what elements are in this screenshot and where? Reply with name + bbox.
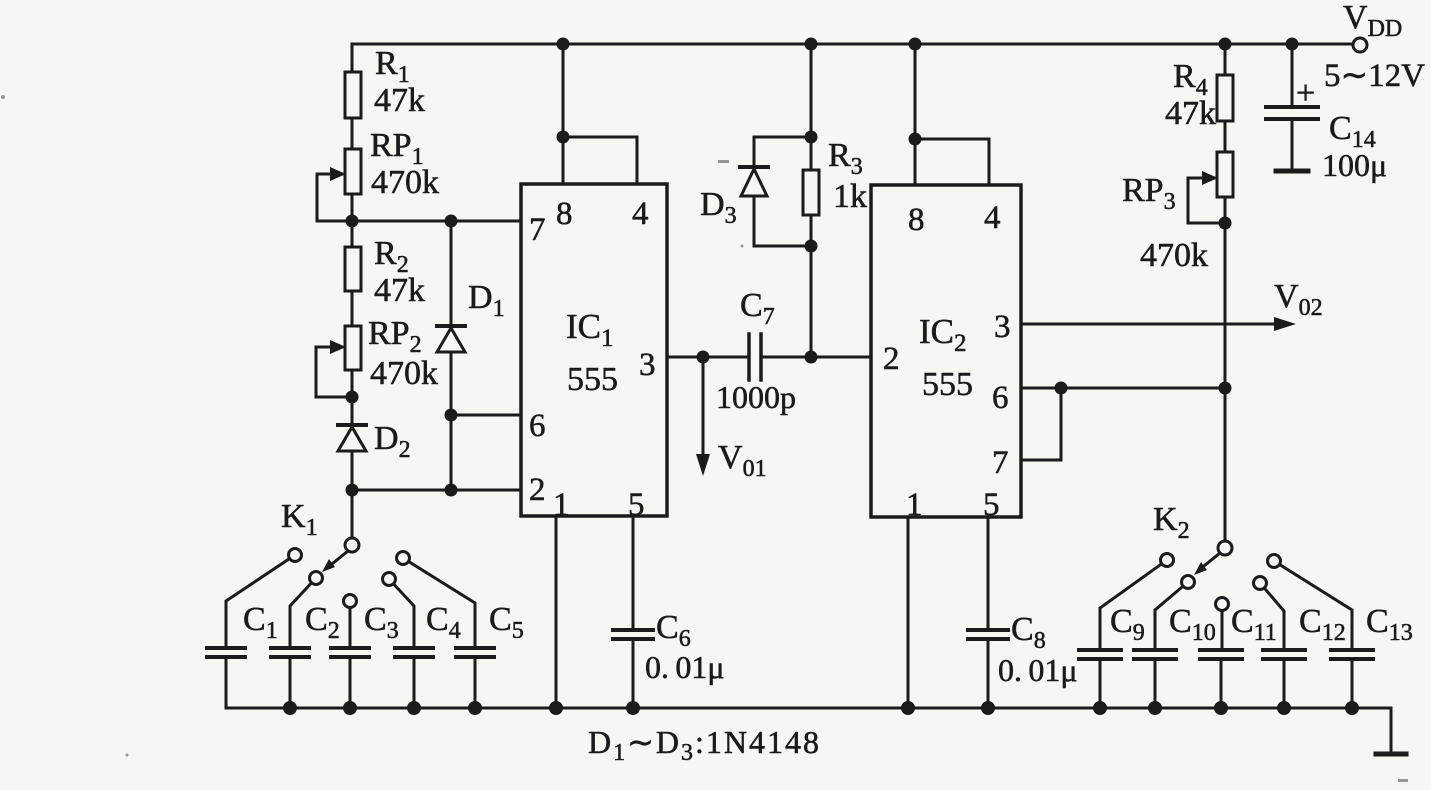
junction dot pin6 row [445,409,458,422]
svg-text:D2: D2 [374,420,411,463]
svg-text:6: 6 [529,408,546,444]
wire: D3 loop left side [754,137,811,246]
wire: IC2 pin7 loop to pin6 [1021,388,1061,460]
potentiometer RP3 body [1217,152,1233,197]
capacitor C7 plates [749,334,761,380]
arrowhead K1 wiper [322,559,335,572]
svg-text:D1: D1 [468,279,505,322]
junction dot C7 right node [805,351,818,364]
svg-text:0. 01μ: 0. 01μ [645,649,725,685]
svg-text:K1: K1 [281,498,318,541]
junction dot pin7 row D1 [445,215,458,228]
svg-text:1: 1 [553,487,570,523]
junction dot D3 top [805,131,818,144]
svg-text:C8: C8 [1011,611,1046,654]
capacitor C8 [968,630,1008,639]
ground rail dots [283,701,297,715]
svg-text:1000p: 1000p [716,379,796,415]
wire: pin7 row to IC1 [317,220,521,223]
svg-text:C6: C6 [656,609,691,652]
IC1 box [521,184,667,516]
switch K2 wiper arm [1199,553,1220,570]
switch K2 arm to C9 [1100,560,1167,650]
switch K1 wiper arm [327,551,348,568]
svg-text:C9: C9 [1110,603,1145,646]
diode D2 [338,423,366,427]
junction dot RP2 bottom [346,391,359,404]
svg-text:555: 555 [922,366,973,403]
wire: IC1 pin1 to ground [555,516,558,708]
svg-text:C11: C11 [1231,603,1277,646]
junction dot IC2 pin8 branch [909,133,922,146]
svg-text:47k: 47k [374,82,425,119]
svg-text:C4: C4 [426,601,461,644]
wire: R3 vertical from rail to C7 node [810,44,813,357]
wire: IC1 pin8 drop from rail [562,44,565,184]
svg-text:C12: C12 [1299,603,1346,646]
svg-text:+: + [1296,75,1315,112]
svg-text:RP3: RP3 [1122,172,1176,215]
wire: C7 right plate to IC2 pin2 [762,356,871,359]
potentiometer RP1 body [345,149,361,194]
arrowhead RP1 wiper [330,167,346,181]
svg-text:2: 2 [529,472,546,508]
switch K1 arm to C3 [349,601,352,648]
capacitor C4 [395,648,433,657]
scan speck [1398,779,1408,782]
svg-text:470k: 470k [371,164,439,201]
switch K1 pole contact [345,538,359,552]
resistor R2 [345,247,361,291]
wire: D1 vertical branch [450,221,453,490]
arrowhead K2 wiper [1194,562,1207,575]
svg-text:4: 4 [984,200,1001,236]
scan speck [126,754,129,757]
wire: V01 arrow stem [702,357,705,464]
svg-text:0. 01μ: 0. 01μ [998,652,1078,688]
wire: right branch vertical (R4/RP3 to K2) [1224,44,1227,541]
svg-text:7: 7 [992,445,1009,481]
potentiometer RP2 body [345,326,361,370]
junction dot IC1 pin8 branch [557,131,570,144]
wire: IC2 pin5 to C8 [987,517,990,708]
svg-text:47k: 47k [1165,95,1216,132]
wire: IC1 pin6 row [451,414,521,417]
wire: C14 positive lead [1291,44,1294,105]
switch K2 arm to C10 [1155,582,1188,650]
switch K2 arm to C13 [1274,561,1352,650]
junction dot D3 bottom [805,240,818,253]
junction dots top rail [557,38,570,51]
switch K2 contact C10 [1182,576,1195,589]
svg-text:2: 2 [883,341,900,377]
wire: IC1 pin4 branch [563,137,637,184]
diode D3 [740,165,768,169]
svg-text:1k: 1k [833,178,867,215]
svg-text:5: 5 [983,487,1000,523]
switch K1 contact C1 [289,549,302,562]
capacitor C3 [331,648,369,657]
svg-text:7: 7 [529,212,546,248]
capacitor C10 [1134,650,1176,659]
svg-text:8: 8 [908,202,925,238]
svg-text:D1∼D3:1N4148: D1∼D3:1N4148 [588,724,821,766]
junction dot pin2 row D1 [445,484,458,497]
capacitor C1 [207,648,245,657]
switch K1 arm to C1 [226,555,295,648]
IC2 box [871,185,1021,517]
svg-text:V01: V01 [718,439,767,482]
switch K1 contact C4 [383,573,396,586]
capacitor C2 [271,648,309,657]
capacitor C11 [1200,650,1242,659]
switch K2 contact C9 [1161,554,1174,567]
capacitor C9 [1079,650,1121,659]
switch K2 contact C11 [1216,598,1229,611]
ground symbol [1376,752,1406,757]
svg-text:VDD: VDD [1343,0,1402,42]
capacitor C12 [1263,650,1305,659]
svg-text:6: 6 [992,380,1009,416]
svg-text:C2: C2 [305,601,340,644]
switch K1 contact C3 [344,595,357,608]
wire: IC1 pin5 to C6 [632,516,635,708]
diode D1 [437,324,465,328]
wire: IC2 pin6 row [1021,387,1225,390]
svg-text:C3: C3 [364,601,399,644]
wire: top VDD rail [352,43,1353,46]
switch K2 contact C13 [1268,555,1281,568]
switch K2 arm to C11 [1221,604,1224,650]
junction dot pin6/pin7 IC2 [1055,382,1068,395]
svg-text:555: 555 [567,361,618,398]
junction dot pin7 row left [346,215,359,228]
svg-text:C7: C7 [740,287,775,330]
wire: IC2 pin8 drop from rail [914,44,917,185]
svg-text:100μ: 100μ [1322,147,1387,183]
junction dot RP3 bottom [1219,217,1232,230]
wire: RP1 wiper tie [317,174,338,221]
junction dot C7 left node [697,351,710,364]
junction dot pin6 row right [1219,382,1232,395]
svg-text:C13: C13 [1366,603,1413,646]
resistor R3 [803,170,819,215]
capacitor C5 [456,648,494,657]
svg-text:1: 1 [906,487,923,523]
switch K1 arm to C5 [403,558,475,648]
svg-text:470k: 470k [1140,237,1208,274]
resistor R1 [345,72,361,118]
VDD terminal [1353,38,1367,52]
wire: bottom ground rail [226,708,1391,753]
arrowhead RP3 wiper [1202,171,1218,185]
wire: left branch vertical (R1/RP1/R2/RP2/D2 chain) [351,44,354,538]
capacitor C13 [1331,650,1373,659]
switch K2 contact C12 [1254,577,1267,590]
wire: V02 output from IC2 pin3 [1021,323,1283,326]
wire: IC2 pin4 branch [915,139,989,185]
wire: IC1 pin3 to C7 left plate [667,356,748,359]
capacitor C6 [613,630,653,639]
svg-text:5: 5 [628,487,645,523]
switch K1 contact C5 [397,552,410,565]
wire: RP3 wiper tie [1188,178,1225,223]
wire: IC1 pin2 row [352,489,521,492]
svg-text:IC1: IC1 [566,307,614,352]
switch K1 contact C2 [310,572,323,585]
svg-text:47k: 47k [374,272,425,309]
switch K2 pole contact [1218,541,1232,555]
svg-text:IC2: IC2 [919,312,967,357]
scan speck [1,95,5,99]
svg-text:R3: R3 [828,137,863,180]
svg-text:5∼12V: 5∼12V [1324,58,1425,94]
svg-text:C10: C10 [1169,603,1216,646]
svg-text:8: 8 [556,196,573,232]
scan speck [741,245,744,248]
svg-text:C1: C1 [243,601,278,644]
capacitor C14 electrolytic [1266,107,1318,119]
svg-text:470k: 470k [370,355,438,392]
switch K1 arm to C4 [389,579,414,648]
svg-text:3: 3 [994,309,1011,345]
resistor R4 [1217,75,1233,121]
svg-text:D3: D3 [700,186,737,229]
scan speck [718,160,729,163]
arrowhead V02 [1274,317,1296,331]
switch K1 arm to C2 [290,578,316,648]
svg-text:4: 4 [632,196,649,232]
svg-text:3: 3 [639,347,656,383]
svg-text:RP2: RP2 [368,315,422,358]
svg-text:C5: C5 [489,601,524,644]
svg-text:K2: K2 [1153,501,1190,544]
arrowhead V01 [696,454,710,476]
wire: RP2 wiper tie [316,347,352,397]
wire: IC2 pin1 to ground [907,517,910,708]
arrowhead RP2 wiper [330,340,346,354]
svg-text:V02: V02 [1274,278,1323,321]
junction dot pin2 row left [346,484,359,497]
switch K2 arm to C12 [1260,583,1284,650]
